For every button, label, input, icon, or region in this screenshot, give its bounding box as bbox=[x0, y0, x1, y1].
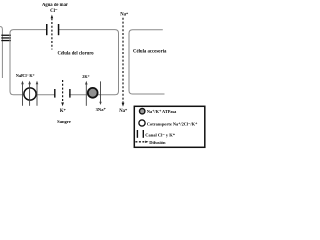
diffusion arrow: Cl- up through apical channel bbox=[51, 15, 54, 50]
svg-text:Cotransporte Na⁺/2Cl⁻/K⁺: Cotransporte Na⁺/2Cl⁻/K⁺ bbox=[147, 121, 197, 126]
svg-text:2Cl⁻: 2Cl⁻ bbox=[20, 73, 29, 78]
svg-text:Cl⁻: Cl⁻ bbox=[50, 9, 58, 14]
tight junction stripes bbox=[1, 35, 11, 42]
cotransporter circle U1 bbox=[24, 88, 36, 100]
svg-text:2K⁺: 2K⁺ bbox=[82, 74, 90, 79]
cell: chloride cell outline (right part) bbox=[59, 30, 119, 95]
cell: chloride cell outline (left part) bbox=[10, 30, 55, 95]
cotransporter transport lines with up arrows bbox=[21, 81, 38, 106]
legend: channel symbol bbox=[137, 130, 138, 138]
pump line: 2K+ in (arrow up) bbox=[85, 81, 88, 106]
svg-text:K⁺: K⁺ bbox=[60, 108, 67, 114]
legend: ATPase symbol bbox=[140, 109, 145, 114]
svg-text:Agua de mar: Agua de mar bbox=[42, 3, 68, 8]
svg-text:Na⁺: Na⁺ bbox=[120, 11, 129, 17]
svg-text:Na⁺: Na⁺ bbox=[119, 108, 128, 114]
svg-text:3Na⁺: 3Na⁺ bbox=[96, 107, 107, 112]
cell: accessory cell outline bbox=[129, 30, 165, 94]
svg-text:Canal Cl⁻ y K⁺: Canal Cl⁻ y K⁺ bbox=[145, 133, 176, 138]
pump line: 3Na+ out (arrow down) bbox=[99, 81, 101, 105]
wire: left neighbor cell edge bbox=[0, 27, 2, 78]
diffusion arrow: K+ down through basolateral channel bbox=[61, 80, 64, 106]
diffusion arrow: Na+ down between cells bbox=[122, 18, 125, 107]
svg-text:Célula accesoria: Célula accesoria bbox=[133, 49, 167, 54]
legend: cotransporter symbol bbox=[139, 120, 145, 126]
svg-text:Célula del cloruro: Célula del cloruro bbox=[58, 51, 95, 56]
svg-text:K⁺: K⁺ bbox=[29, 73, 34, 78]
svg-text:Sangre: Sangre bbox=[57, 119, 71, 124]
svg-text:Difusión: Difusión bbox=[149, 140, 166, 145]
legend: diffusion symbol bbox=[135, 141, 148, 143]
channel Cl apical: bars bbox=[46, 24, 48, 35]
svg-text:Na⁺/K⁺ ATPasa: Na⁺/K⁺ ATPasa bbox=[147, 109, 177, 114]
channel K basolateral: bars bbox=[54, 89, 55, 98]
legend box bbox=[134, 106, 205, 147]
pump ATPase circle bbox=[88, 88, 98, 98]
